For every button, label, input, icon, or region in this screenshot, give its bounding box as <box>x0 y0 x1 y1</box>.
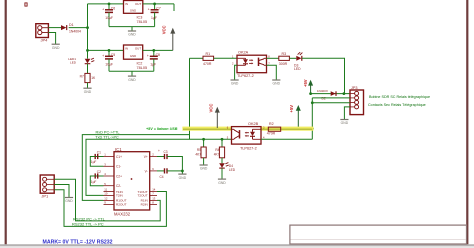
capacitor C7 1uF <box>154 4 156 10</box>
capacitor C1 <box>95 156 103 158</box>
svg-text:R7: R7 <box>80 74 84 78</box>
supply +5V arrow coil <box>308 80 313 86</box>
svg-text:+: + <box>148 8 150 12</box>
junction contacts riser <box>311 101 314 104</box>
wire D4 to ground <box>221 168 223 179</box>
svg-text:+5V: +5V <box>303 79 308 87</box>
svg-text:T2IN: T2IN <box>116 194 123 198</box>
junction C7 <box>153 3 156 6</box>
wire R3 to D3 <box>289 57 296 59</box>
svg-text:OUT: OUT <box>135 2 142 6</box>
resistor R2 470R <box>268 127 280 131</box>
wire row1 caps common <box>109 26 155 28</box>
resistor R3 300R <box>279 56 290 60</box>
svg-text:OK2A: OK2A <box>238 51 249 55</box>
svg-text:R4: R4 <box>215 148 219 152</box>
wire JP4 pin2 to ground <box>48 33 55 45</box>
wire R4 stub <box>221 139 223 147</box>
svg-text:IC3: IC3 <box>137 16 143 20</box>
resistor R7 <box>85 73 90 82</box>
svg-text:JP1: JP1 <box>41 194 49 199</box>
junction C5 <box>108 49 111 52</box>
svg-text:300R: 300R <box>279 62 288 66</box>
svg-text:10µF: 10µF <box>105 62 113 66</box>
wire JP3 pin4 to ground <box>344 107 350 119</box>
ground OK2A right <box>272 79 280 81</box>
frame left border <box>5 0 7 246</box>
svg-text:+: + <box>158 149 160 153</box>
svg-text:+: + <box>102 8 104 12</box>
svg-text:1µF: 1µF <box>150 63 156 67</box>
ground JP1 <box>65 197 73 199</box>
ground row2 <box>131 71 133 76</box>
junction R5 <box>202 138 205 141</box>
svg-text:1N4004: 1N4004 <box>69 29 81 33</box>
diode D1 <box>61 25 66 30</box>
svg-text:78L05: 78L05 <box>137 20 148 24</box>
junction bus-row2 <box>86 49 89 52</box>
svg-text:RS232 PC -> TTL: RS232 PC -> TTL <box>73 216 106 221</box>
svg-text:78L05: 78L05 <box>137 66 148 70</box>
junction C3 C4 <box>181 170 184 173</box>
svg-text:RS232 TTL -> PC: RS232 TTL -> PC <box>72 222 104 227</box>
svg-text:C6: C6 <box>111 6 115 10</box>
wire R1 to OK2A <box>214 57 237 59</box>
svg-text:OK2B: OK2B <box>248 122 259 126</box>
svg-text:C7: C7 <box>156 6 160 10</box>
supply +5V arrow contacts <box>296 105 301 111</box>
svg-text:C8: C8 <box>156 53 160 57</box>
wire row2 input <box>88 49 124 51</box>
LED D4 <box>219 163 225 168</box>
svg-text:GND: GND <box>273 82 281 86</box>
svg-text:4K7: 4K7 <box>195 153 201 157</box>
svg-text:VCC: VCC <box>209 104 214 113</box>
wire R4 to LED D4 <box>221 158 223 163</box>
svg-text:IC1: IC1 <box>115 147 122 152</box>
svg-text:C2+: C2+ <box>116 174 122 178</box>
capacitor C4 <box>157 170 165 172</box>
wire row2 caps common <box>109 70 154 72</box>
wire row1 output <box>143 3 174 5</box>
wire contacts riser <box>311 98 313 139</box>
svg-text:C5: C5 <box>111 53 115 57</box>
junction C8 <box>152 49 155 52</box>
ic IC1 MAX232 <box>114 152 150 210</box>
ground row1 <box>131 27 133 31</box>
svg-text:GND: GND <box>231 82 239 86</box>
junction D1-bus <box>86 26 89 29</box>
LED power indicator <box>85 59 91 64</box>
svg-text:JP3: JP3 <box>351 86 358 90</box>
wire JP3 pin3 <box>312 102 350 104</box>
frame tick top-left <box>25 3 27 6</box>
svg-text:C1-: C1- <box>116 165 121 169</box>
svg-text:GND: GND <box>218 181 226 185</box>
capacitor C3 <box>157 156 165 158</box>
junction R4 <box>221 138 224 141</box>
junction +5V <box>309 92 312 95</box>
regulator IC2 78L05 <box>124 45 143 59</box>
svg-text:RxD PC->TTL: RxD PC->TTL <box>96 131 120 135</box>
ground R5 <box>200 164 208 166</box>
capacitor C5 10uF <box>108 50 110 56</box>
svg-text:+5V = liaison USB: +5V = liaison USB <box>146 127 178 131</box>
connector JP1 <box>40 175 54 193</box>
svg-text:GND: GND <box>65 199 73 203</box>
wire OK2B emitter east <box>261 138 312 140</box>
ground R7 <box>83 87 91 89</box>
LED D3 <box>296 56 301 61</box>
svg-text:+: + <box>147 54 149 58</box>
svg-text:MARK= 0V TTL= -12V RS232: MARK= 0V TTL= -12V RS232 <box>43 239 113 245</box>
svg-text:R3: R3 <box>282 52 287 56</box>
svg-text:GND: GND <box>52 46 60 50</box>
svg-text:IC2: IC2 <box>137 61 143 65</box>
svg-text:GND: GND <box>128 78 136 82</box>
optocoupler OK2B TLP627-2 <box>232 127 262 145</box>
svg-text:4K7: 4K7 <box>214 153 220 157</box>
svg-text:10: 10 <box>104 192 108 196</box>
wire LED to R7 <box>87 64 89 74</box>
svg-text:Bobine SDR SC Relais télégraph: Bobine SDR SC Relais télégraphique <box>369 95 430 99</box>
pin stubs IC1 right <box>150 156 157 158</box>
svg-text:+: + <box>102 54 104 58</box>
wire D1 to +V bus <box>69 27 88 29</box>
svg-text:LED: LED <box>294 67 301 71</box>
svg-text:IN: IN <box>125 2 128 6</box>
svg-text:V+: V+ <box>144 155 148 159</box>
supply VCC arrow mid <box>215 107 220 113</box>
ground C3 C4 <box>178 173 186 175</box>
connector JP3 <box>350 90 364 115</box>
svg-text:TLP627-2: TLP627-2 <box>240 146 257 150</box>
svg-text:GND: GND <box>130 9 136 13</box>
wire D3 to relay node <box>302 58 345 93</box>
svg-text:1µF: 1µF <box>91 180 97 184</box>
wire OK2A collector to R3 <box>267 57 279 59</box>
svg-text:V-: V- <box>145 169 148 173</box>
wire RS232 TTL to PC <box>54 190 166 227</box>
svg-text:JP4: JP4 <box>41 37 49 42</box>
title block <box>290 225 467 244</box>
capacitor C6 10uF <box>108 4 110 10</box>
svg-text:VCC: VCC <box>162 25 167 34</box>
svg-text:+5V: +5V <box>289 105 294 113</box>
svg-text:GND: GND <box>128 33 136 37</box>
junction C6 <box>108 3 111 6</box>
wire R1OUT riser to R1 <box>189 58 191 139</box>
svg-text:1N400X: 1N400X <box>317 89 328 93</box>
svg-text:C2: C2 <box>97 170 101 174</box>
wire TTL receive net B <box>86 139 232 195</box>
svg-text:R2: R2 <box>269 122 274 126</box>
wire to R1 <box>190 57 204 59</box>
diode D2 1N400X <box>331 91 336 96</box>
ground OK2A left <box>231 79 239 81</box>
wire RS232 PC to TTL <box>54 179 160 221</box>
svg-text:MAX232: MAX232 <box>114 211 131 216</box>
svg-text:R2OUT: R2OUT <box>116 203 127 207</box>
svg-text:GND: GND <box>130 54 136 58</box>
svg-text:C4: C4 <box>160 175 164 179</box>
wire JP3 pin2 <box>312 97 350 99</box>
wire OK2A emitter to ground <box>267 65 277 80</box>
svg-text:GND: GND <box>200 167 208 171</box>
svg-text:R1: R1 <box>206 52 211 56</box>
svg-text:OUT: OUT <box>135 47 142 51</box>
svg-text:1µF: 1µF <box>151 16 157 20</box>
svg-text:R2IN: R2IN <box>141 203 148 207</box>
wire +5V highlighted net <box>182 127 231 131</box>
wire R5 to ground <box>203 158 205 165</box>
svg-text:GND: GND <box>341 121 349 125</box>
supply VCC arrow top <box>170 28 175 34</box>
wire row1 input <box>88 3 124 5</box>
svg-text:R5: R5 <box>197 148 201 152</box>
regulator IC3 78L05 <box>124 1 143 14</box>
wire row1 output stub <box>173 4 175 11</box>
svg-text:LED: LED <box>70 61 77 65</box>
ground JP3 <box>340 119 348 121</box>
svg-text:T2OUT: T2OUT <box>138 194 148 198</box>
wire +5V to JP3 pin1 <box>311 93 350 95</box>
svg-text:C2-: C2- <box>116 184 121 188</box>
frame right border <box>466 0 468 246</box>
wire row2 output <box>143 49 173 51</box>
resistor R5 4K7 <box>201 147 206 158</box>
svg-text:GND: GND <box>84 90 92 94</box>
svg-text:TLP627-2: TLP627-2 <box>237 74 254 78</box>
svg-text:C3: C3 <box>164 150 168 154</box>
pin stubs IC1 left <box>104 156 115 158</box>
svg-text:470R: 470R <box>203 62 212 66</box>
wire caps to ground <box>181 171 183 174</box>
wire OK2A anode-side ground <box>235 65 237 80</box>
svg-text:TxD TTL->PC: TxD TTL->PC <box>95 135 119 139</box>
svg-text:1µF: 1µF <box>91 160 97 164</box>
svg-text:D1: D1 <box>69 23 74 27</box>
junction relay node <box>343 92 346 95</box>
ground JP4 <box>52 43 60 45</box>
bottom gray band <box>0 244 474 246</box>
svg-text:C1+: C1+ <box>116 155 122 159</box>
svg-text:IN: IN <box>125 47 128 51</box>
wire JP1 pin2 to ground <box>54 185 69 198</box>
svg-text:Contacts Sec Relais Télégraphi: Contacts Sec Relais Télégraphique <box>368 103 426 107</box>
svg-text:C1: C1 <box>97 150 101 154</box>
wire JP4 pin1 to D1 <box>48 27 61 29</box>
resistor R4 4K7 <box>219 147 224 158</box>
svg-text:10µF: 10µF <box>105 16 113 20</box>
wire TTL drive net A <box>82 135 189 201</box>
optocoupler OK2A TLP627-2 <box>237 55 267 72</box>
wire R5 stub <box>203 139 205 147</box>
capacitor C2 <box>95 175 103 177</box>
resistor R1 470R <box>203 56 214 60</box>
ground D4 <box>218 178 226 180</box>
wire +V bus <box>87 4 89 59</box>
svg-text:LED: LED <box>229 168 236 172</box>
capacitor C8 1uF <box>153 50 155 56</box>
svg-text:470R: 470R <box>267 132 276 136</box>
wire R7 to ground <box>87 83 89 88</box>
svg-text:GND: GND <box>179 176 187 180</box>
connector JP4 <box>36 24 49 38</box>
